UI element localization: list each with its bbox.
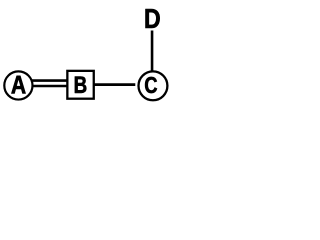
label C [145,77,157,93]
label A [11,76,25,94]
node A circle [4,71,32,99]
node B square [67,71,93,99]
background [0,0,171,108]
node C circle [139,71,168,100]
label B [75,77,86,93]
bond B-C [94,83,136,86]
bond C-D [151,31,154,71]
label D [146,9,160,28]
double bond A=B upper line [32,79,68,82]
double bond A=B lower line [32,85,68,88]
